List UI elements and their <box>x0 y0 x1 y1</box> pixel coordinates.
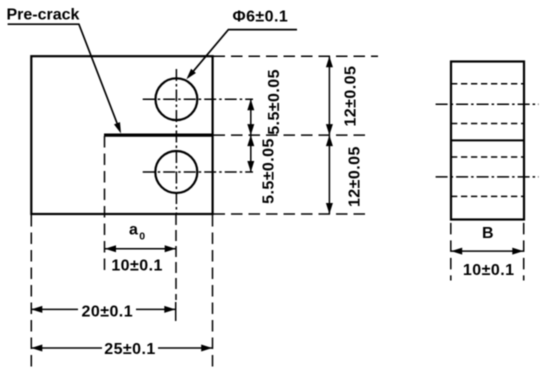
hole top circle <box>156 78 198 120</box>
dimension line 5.5 lower segment <box>250 135 252 172</box>
side view outline <box>451 62 524 220</box>
extension line crack tip vertical <box>104 136 106 275</box>
svg-text:5.5±0.05: 5.5±0.05 <box>266 69 283 135</box>
arrowhead 12 lower down <box>326 203 333 214</box>
arrowhead 5.5 upper up <box>247 99 254 110</box>
arrowhead B right <box>512 248 523 255</box>
horizontal centerline top hole <box>143 98 253 100</box>
extension line top edge horizontal <box>214 55 379 57</box>
svg-text:10±0.1: 10±0.1 <box>463 262 515 279</box>
arrowhead B left <box>451 248 462 255</box>
arrowhead 20 left <box>31 306 42 313</box>
hole bottom circle <box>155 151 197 193</box>
arrowhead a0 left <box>105 245 116 252</box>
side view notch plane solid line <box>451 139 524 141</box>
vertical centerline of holes <box>175 69 177 214</box>
dimension line 25 right part <box>158 347 212 349</box>
dimension line 12 upper segment <box>328 56 330 135</box>
dimension line 12 lower segment <box>328 135 330 214</box>
leader phi6 polyline <box>189 30 298 77</box>
arrowhead pre-crack leader <box>114 122 121 133</box>
arrowhead 20 right <box>164 306 175 313</box>
side view extension line left <box>450 223 452 281</box>
arrowhead 12 upper down <box>326 124 333 135</box>
arrowhead 12 upper up <box>326 56 333 67</box>
arrowhead a0 right <box>165 245 176 252</box>
extension line right edge vertical <box>212 215 214 371</box>
svg-text:25±0.1: 25±0.1 <box>104 341 156 358</box>
arrowhead 5.5 lower up <box>247 135 254 146</box>
arrowhead phi6 leader <box>186 69 196 80</box>
vertical centerline extension below front view <box>175 214 177 300</box>
dimension line 20 right part <box>136 308 175 310</box>
svg-text:20±0.1: 20±0.1 <box>82 303 134 320</box>
side view hidden line hole1 top <box>451 83 524 85</box>
svg-text:0: 0 <box>139 231 145 243</box>
pre-crack notch line <box>104 134 213 137</box>
front view outline <box>31 56 212 214</box>
extension line notch horizontal <box>214 134 371 136</box>
svg-text:12±0.05: 12±0.05 <box>347 146 364 207</box>
dimension line 25 left part <box>31 347 102 349</box>
side view hidden line hole2 bottom <box>451 195 524 197</box>
arrowhead 25 right <box>201 345 212 352</box>
centerline tick at 20-dim <box>175 302 177 321</box>
svg-text:Pre-crack: Pre-crack <box>7 7 80 24</box>
side view dimension line B 10 <box>451 250 523 252</box>
dimension line a0 10 <box>105 248 176 250</box>
side view hidden line hole2 top <box>451 156 524 158</box>
svg-text:Φ6±0.1: Φ6±0.1 <box>233 9 289 26</box>
dimension line 20 left part <box>31 308 78 310</box>
svg-text:B: B <box>482 225 494 242</box>
arrowhead 25 left <box>31 345 42 352</box>
svg-text:10±0.1: 10±0.1 <box>111 257 163 274</box>
svg-text:a: a <box>129 222 138 239</box>
extension line left edge vertical <box>30 215 32 371</box>
svg-text:5.5±0.05: 5.5±0.05 <box>261 138 278 204</box>
side view hidden line hole1 bottom <box>451 123 524 125</box>
side view centerline hole2 <box>436 176 539 178</box>
svg-text:12±0.05: 12±0.05 <box>343 66 360 127</box>
extension line bottom edge horizontal <box>214 213 371 215</box>
side view extension line right <box>523 223 525 281</box>
leader pre-crack polyline <box>8 24 120 129</box>
horizontal centerline bottom hole <box>143 171 253 173</box>
dimension line 5.5 upper segment <box>250 99 252 135</box>
side view centerline hole1 <box>436 103 539 105</box>
arrowhead 5.5 upper down <box>247 124 254 135</box>
arrowhead 5.5 lower down <box>247 161 254 172</box>
arrowhead 12 lower up <box>326 135 333 146</box>
